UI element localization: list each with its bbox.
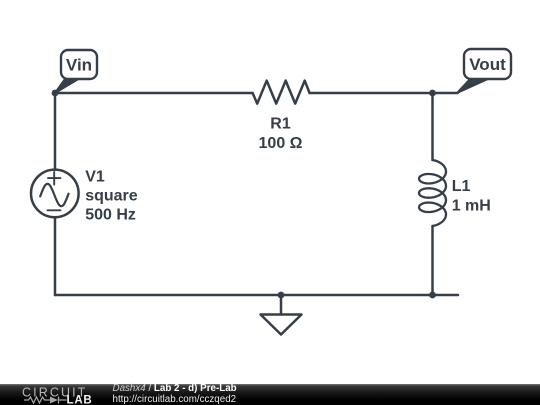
svg-text:100 Ω: 100 Ω — [259, 135, 303, 152]
voltage source V1 plus sign — [48, 172, 60, 185]
footer title text — [113, 383, 237, 405]
wire left vertical lower (V1 bottom to bottom rail) — [54, 217, 57, 295]
CircuitLab logo — [0, 384, 110, 405]
junction dot at bottom-right node — [429, 292, 436, 299]
voltage source V1 circle — [31, 170, 79, 218]
wire bottom horizontal rail — [55, 294, 458, 297]
footer bar — [0, 384, 540, 405]
svg-text:500 Hz: 500 Hz — [85, 207, 136, 224]
voltage source V1 sine wave — [40, 184, 68, 206]
net label Vin flag — [55, 50, 97, 93]
wire right vertical lower (L1 bottom to bottom rail) — [431, 226, 434, 295]
wire right vertical upper (Vout node to L1 top) — [431, 93, 434, 160]
svg-text:LAB: LAB — [67, 394, 93, 405]
svg-text:1 mH: 1 mH — [452, 198, 491, 215]
svg-text:L1: L1 — [452, 178, 471, 195]
ground symbol stub wire — [280, 295, 283, 315]
svg-text:square: square — [85, 188, 138, 205]
footer url text — [113, 394, 237, 405]
svg-text:Vout: Vout — [469, 55, 506, 74]
wire top-left vertical (Vin node to V1 top) — [54, 93, 57, 170]
ground symbol triangle — [261, 315, 302, 335]
voltage source V1 minus sign — [48, 209, 61, 211]
svg-text:Vin: Vin — [66, 56, 92, 75]
svg-text:V1: V1 — [85, 169, 105, 186]
junction dot at Vout node — [429, 90, 436, 97]
wire top horizontal (Vin node to R1 left lead) — [55, 92, 253, 95]
wire top horizontal (R1 right lead to Vout node) — [310, 92, 433, 95]
inductor L1 coil — [419, 160, 446, 226]
svg-text:R1: R1 — [270, 116, 291, 133]
wire top stub (Vout node to Vout tail tip) — [433, 92, 458, 95]
junction dot at ground node — [278, 292, 285, 299]
junction dot at Vin node — [52, 90, 59, 97]
net label Vout flag — [457, 49, 511, 93]
resistor R1 body — [253, 81, 310, 104]
